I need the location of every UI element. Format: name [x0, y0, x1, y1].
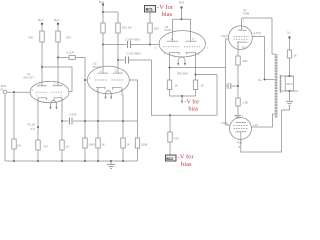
svg-text:bias: bias [162, 11, 173, 18]
svg-text:220K: 220K [141, 143, 148, 147]
svg-text:100K: 100K [89, 143, 96, 147]
svg-text:1.5K: 1.5K [243, 101, 249, 105]
svg-text:470: 470 [43, 145, 48, 149]
svg-text:B+3: B+3 [99, 0, 104, 4]
svg-text:1K: 1K [127, 143, 131, 147]
svg-text:B+4: B+4 [179, 1, 184, 5]
svg-text:bias: bias [189, 107, 199, 113]
svg-text:39K 39K: 39K 39K [177, 72, 188, 76]
svg-text:B+: B+ [259, 78, 263, 82]
svg-text:8Ω S: 8Ω S [286, 82, 292, 86]
svg-text:BC1: BC1 [146, 8, 153, 12]
svg-text:4.7(2): 4.7(2) [254, 31, 261, 35]
svg-text:1K: 1K [66, 145, 70, 149]
svg-text:B+1: B+1 [38, 18, 43, 22]
svg-text:R1 2K: R1 2K [28, 123, 36, 127]
svg-text:2.2UF 450V: 2.2UF 450V [126, 52, 141, 56]
svg-text:-V for: -V for [178, 154, 195, 161]
svg-text:6SL7GT: 6SL7GT [24, 76, 35, 80]
svg-text:15K: 15K [154, 27, 159, 31]
svg-text:1K: 1K [175, 84, 179, 88]
svg-text:B+2: B+2 [54, 18, 59, 22]
svg-text:1K: 1K [201, 84, 205, 88]
svg-text:1K: 1K [294, 54, 298, 58]
svg-text:22K: 22K [66, 36, 71, 40]
svg-text:-V for: -V for [185, 99, 200, 106]
svg-text:2.2UF 450V: 2.2UF 450V [125, 38, 140, 42]
svg-text:+10: +10 [253, 123, 258, 127]
svg-text:5798: 5798 [243, 12, 250, 16]
svg-text:150 1W: 150 1W [122, 26, 132, 30]
svg-text:1M: 1M [17, 144, 22, 148]
svg-text:16: 16 [287, 31, 291, 35]
svg-text:1.5(2): 1.5(2) [221, 34, 228, 38]
svg-text:BC2: BC2 [166, 157, 173, 161]
svg-text:IN: IN [1, 88, 4, 92]
svg-text:47K: 47K [174, 137, 179, 141]
svg-text:2.2UF: 2.2UF [69, 113, 77, 117]
svg-text:-V for: -V for [157, 4, 174, 11]
svg-text:2-0: 2-0 [31, 127, 35, 131]
svg-text:6CG7: 6CG7 [93, 65, 101, 69]
svg-text:1.5(2): 1.5(2) [221, 121, 228, 125]
svg-text:220: 220 [243, 59, 248, 63]
svg-text:75K: 75K [28, 36, 33, 40]
svg-text:1K: 1K [102, 143, 106, 147]
svg-text:bias: bias [181, 161, 192, 168]
svg-text:0.1UF: 0.1UF [67, 51, 75, 55]
svg-text:8(2): 8(2) [242, 47, 247, 50]
svg-text:6CG7: 6CG7 [165, 28, 173, 32]
